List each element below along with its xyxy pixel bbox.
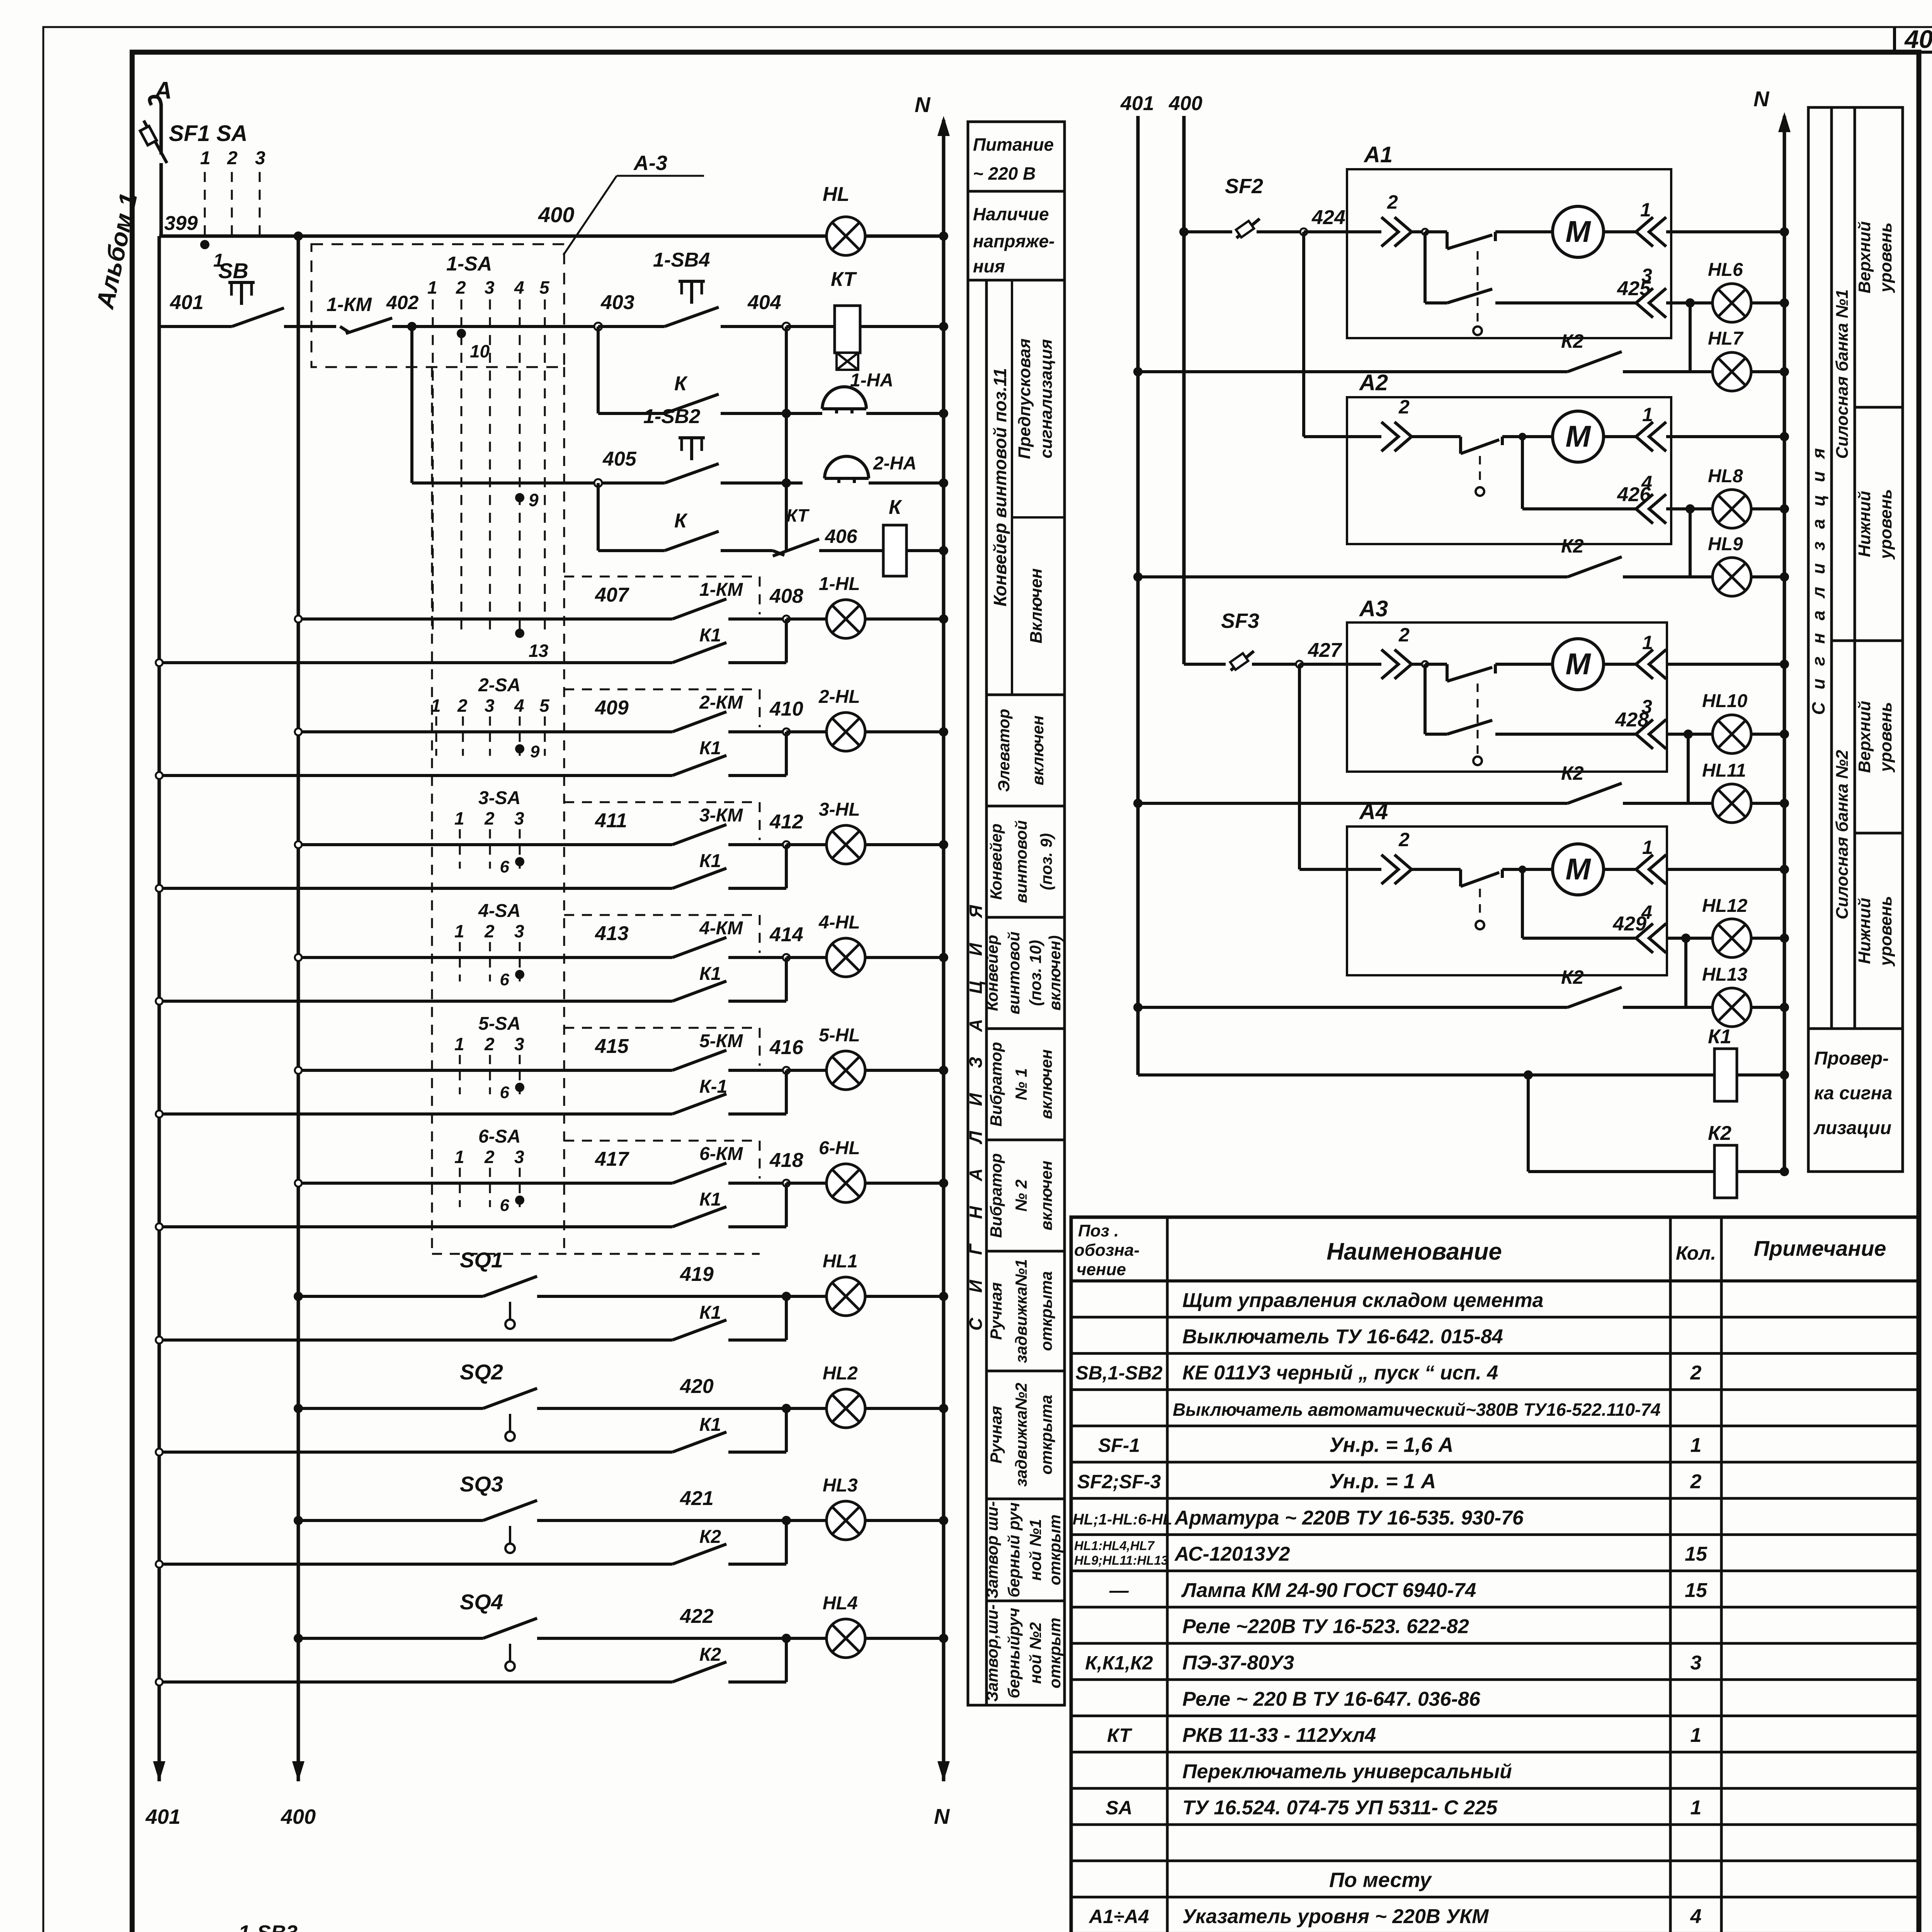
A3 contact internals (1422, 661, 1553, 681)
svg-text:416: 416 (769, 1036, 804, 1059)
svg-text:HL3: HL3 (823, 1475, 858, 1496)
branch down SQ2 (785, 1408, 788, 1452)
svg-text:винтовой: винтовой (1005, 932, 1023, 1014)
contact K row (598, 372, 800, 413)
svg-text:4-КМ: 4-КМ (699, 918, 743, 939)
dashed box 2-КМ (564, 689, 760, 727)
level indicator block А3 (1347, 596, 1667, 772)
junction K2 bus401 A4 (1133, 1003, 1143, 1012)
junction HL8/N (1780, 504, 1789, 514)
svg-text:1-HL: 1-HL (819, 574, 860, 594)
relay contact К1 row 2 (159, 738, 786, 776)
branch 414 down (785, 957, 788, 1001)
parts row 3: КЕ 011У3 черный „ пуск “ (1075, 1362, 1701, 1384)
svg-text:2: 2 (484, 1147, 495, 1167)
svg-text:КТ: КТ (1107, 1725, 1133, 1746)
svg-text:40: 40 (1904, 25, 1932, 53)
node 13 (515, 629, 524, 638)
svg-text:ПЭ-37-80У3: ПЭ-37-80У3 (1182, 1652, 1294, 1674)
selector 3-SА label and contacts (454, 788, 524, 869)
svg-text:407: 407 (595, 584, 629, 606)
wire to K2 coil (1528, 1170, 1714, 1173)
svg-text:SQ4: SQ4 (460, 1590, 503, 1614)
svg-text:1: 1 (454, 921, 464, 941)
bus 400 second vertical (297, 236, 300, 1781)
svg-text:SА: SА (1105, 1797, 1132, 1819)
svg-text:открыт: открыт (1046, 1514, 1064, 1585)
parts row 15: ТУ 16.524. 074-75 УП 5311 (1105, 1797, 1701, 1819)
motor M A4 (1553, 844, 1604, 895)
svg-text:SF-1: SF-1 (1098, 1435, 1140, 1456)
svg-text:HL10: HL10 (1702, 691, 1748, 711)
svg-text:Лампа КМ 24-90 ГОСТ 6940-7: Лампа КМ 24-90 ГОСТ 6940-74 (1181, 1579, 1476, 1602)
junction wire 407 bus 400 (295, 616, 302, 622)
pushbutton SB (218, 259, 336, 327)
svg-text:ния: ния (973, 256, 1005, 276)
junction К-1 bus 401 (156, 1111, 163, 1117)
svg-text:винтовой: винтовой (1012, 820, 1030, 903)
svg-text:включен: включен (1037, 1049, 1055, 1119)
svg-text:задвижка№2: задвижка№2 (1012, 1383, 1030, 1486)
svg-text:(поз. 10): (поз. 10) (1026, 940, 1044, 1006)
A4 contact internals (1437, 866, 1553, 886)
svg-text:2: 2 (1398, 829, 1410, 850)
branch 412 down (785, 845, 788, 888)
svg-text:Выключатель ТУ 16-642. 015-84: Выключатель ТУ 16-642. 015-84 (1182, 1325, 1503, 1348)
svg-text:Щит управления складом цемента: Щит управления складом цемента (1182, 1289, 1544, 1312)
svg-text:HL;1-HL:6-HL: HL;1-HL:6-HL (1073, 1511, 1172, 1528)
svg-text:401: 401 (170, 291, 204, 314)
junction A1/N (1780, 227, 1789, 236)
svg-text:1: 1 (200, 148, 211, 168)
contactor contact 4-КМ (672, 918, 786, 957)
parts row 17: По месту (1329, 1868, 1432, 1891)
svg-text:SВ: SВ (218, 259, 248, 283)
svg-text:419: 419 (680, 1263, 714, 1286)
lamp HL12 (1713, 919, 1751, 957)
svg-text:399: 399 (164, 212, 198, 235)
svg-text:4: 4 (1690, 1905, 1702, 1928)
svg-text:обозна-: обозна- (1074, 1241, 1139, 1260)
svg-text:Провер-: Провер- (1814, 1048, 1889, 1069)
svg-text:13: 13 (529, 641, 549, 661)
svg-text:КЕ 011У3 черный „ пуск “: КЕ 011У3 черный „ пуск “ исп. 4 (1182, 1362, 1498, 1384)
dashed selector chain right guide (563, 367, 565, 1252)
svg-text:2: 2 (484, 921, 495, 941)
svg-text:Указатель уровня ~ 220В УКМ: Указатель уровня ~ 220В УКМ (1182, 1905, 1489, 1928)
input terminal symbol (150, 97, 161, 139)
lamp HL7 (1713, 352, 1751, 391)
svg-text:HL6: HL6 (1708, 260, 1743, 280)
HL6 to N (1751, 301, 1784, 304)
lamp HL3 to N (865, 1519, 944, 1522)
svg-text:Питание: Питание (973, 134, 1054, 155)
branch down SQ3 (785, 1520, 788, 1564)
svg-text:6-SА: 6-SА (478, 1126, 520, 1147)
contactor contact 2-КМ (672, 692, 786, 732)
svg-text:М: М (1566, 647, 1592, 681)
signal cell Элеватор (986, 695, 1065, 792)
svg-text:Затвор,ши-: Затвор,ши- (983, 1604, 1001, 1702)
svg-text:2-НА: 2-НА (873, 453, 917, 474)
lamp 4-HL to N (865, 956, 944, 959)
lamp HL4 to N (865, 1637, 944, 1640)
connector pin 2 A1 (1381, 217, 1412, 247)
branch down SQ4 (785, 1638, 788, 1682)
svg-text:401: 401 (1120, 92, 1154, 115)
signal cell Затвор ши- (983, 1499, 1065, 1599)
relay contact K2 row A2 (1138, 535, 1690, 577)
1-SA contact lines (427, 277, 550, 634)
node 428 (1666, 733, 1688, 736)
A2 actuator dashed (1479, 456, 1481, 486)
lamp HL4 (827, 1619, 865, 1658)
relay contact К1 row 4 (159, 964, 786, 1001)
svg-text:Силосная банка №2: Силосная банка №2 (1833, 750, 1852, 919)
svg-text:2-КМ: 2-КМ (699, 692, 743, 713)
svg-text:409: 409 (595, 697, 629, 719)
junction 400/bus400 (294, 231, 303, 241)
svg-text:К2: К2 (699, 1527, 721, 1547)
svg-text:открыта: открыта (1037, 1395, 1055, 1475)
junction K2 bus401 A3 (1133, 799, 1143, 808)
svg-text:А: А (154, 77, 172, 104)
pushbutton 1-SB4 (653, 249, 786, 327)
svg-text:SА: SА (216, 121, 248, 146)
selector 2-SА label and contacts (431, 675, 550, 756)
contactor contact 5-КМ (672, 1031, 786, 1070)
svg-text:включен: включен (1029, 716, 1047, 786)
junction 400/N (939, 231, 948, 241)
svg-text:4-SА: 4-SА (478, 901, 520, 921)
svg-text:3: 3 (514, 808, 524, 828)
branch 425 down (1689, 303, 1692, 372)
svg-text:Нижний: Нижний (1855, 898, 1874, 964)
junction HL10/N (1780, 730, 1789, 739)
relay contact K2 row A1 (1138, 330, 1690, 372)
svg-text:3: 3 (485, 277, 495, 298)
node 9 group 2 (515, 744, 524, 753)
node wire 419 (782, 1292, 791, 1301)
A3 actuator dashed (1477, 684, 1479, 755)
svg-text:Поз .: Поз . (1078, 1221, 1119, 1240)
svg-text:HL7: HL7 (1708, 328, 1744, 349)
svg-text:Ручная: Ручная (987, 1282, 1005, 1340)
svg-text:А1÷А4: А1÷А4 (1088, 1906, 1149, 1927)
junction lamp 4-HL N (939, 953, 948, 962)
wire 420 to lamp (786, 1407, 827, 1410)
svg-text:К1: К1 (699, 1415, 721, 1435)
wire 418 to lamp (786, 1182, 827, 1185)
svg-text:N: N (934, 1804, 950, 1828)
junction wire 413 bus 400 (295, 954, 302, 961)
svg-text:открыта: открыта (1037, 1271, 1055, 1351)
relay contact К1 row 6 (159, 1189, 786, 1227)
bell 1-HA (800, 370, 944, 413)
svg-text:уровень: уровень (1876, 896, 1895, 967)
lamp 2-HL to N (865, 730, 944, 733)
svg-text:3: 3 (485, 696, 495, 716)
svg-text:Наименование: Наименование (1327, 1238, 1502, 1265)
svg-text:HL1: HL1 (823, 1251, 858, 1272)
wire 407 (298, 584, 672, 619)
bus N left vertical (942, 120, 946, 1781)
svg-text:1: 1 (431, 696, 441, 716)
svg-text:6: 6 (500, 1083, 510, 1102)
lamp 1-HL to N (865, 617, 944, 621)
svg-text:К: К (889, 496, 902, 519)
lamp HL8 (1713, 490, 1751, 528)
lamp 3-HL to N (865, 843, 944, 846)
svg-text:3: 3 (514, 1147, 524, 1167)
connector pin 2 A4 (1381, 855, 1412, 884)
node wire 420 (782, 1404, 791, 1413)
wire 409 (298, 697, 672, 732)
svg-text:SB,1-SB2: SB,1-SB2 (1075, 1362, 1162, 1384)
bell 2-HA (782, 453, 944, 488)
svg-text:5: 5 (539, 277, 550, 298)
selector 4-SА label and contacts (454, 901, 524, 981)
svg-text:К: К (674, 372, 688, 395)
wire bus400 to SQ2 (298, 1407, 483, 1410)
wire 408 to lamp (786, 617, 827, 621)
svg-text:ка сигна: ка сигна (1814, 1083, 1892, 1104)
svg-text:По месту: По месту (1329, 1868, 1432, 1891)
dashed selector chain left line (431, 367, 433, 1254)
svg-text:2: 2 (1398, 396, 1410, 418)
limit switch SQ1 (460, 1248, 786, 1329)
svg-text:N: N (915, 92, 931, 117)
wire 416 to lamp (786, 1069, 827, 1072)
junction lamp HL3 N (939, 1516, 948, 1525)
svg-text:1-SА: 1-SА (446, 253, 492, 275)
svg-text:Конвейер: Конвейер (987, 823, 1005, 900)
svg-text:400: 400 (281, 1805, 316, 1828)
junction lamp 5-HL N (939, 1066, 948, 1075)
svg-text:Арматура ~ 220В ТУ 16-535. 93: Арматура ~ 220В ТУ 16-535. 930-76 (1174, 1507, 1524, 1529)
node 412 (783, 841, 790, 848)
svg-text:2: 2 (1387, 191, 1398, 213)
svg-text:1: 1 (1640, 199, 1651, 221)
svg-text:SQ2: SQ2 (460, 1360, 503, 1384)
node 426 (1666, 507, 1690, 510)
svg-text:напряже-: напряже- (973, 231, 1054, 251)
svg-text:—: — (1109, 1580, 1129, 1601)
svg-text:2: 2 (457, 696, 468, 716)
wire M A1 to N (1604, 230, 1636, 233)
branch 408 down (785, 619, 788, 663)
svg-text:410: 410 (769, 698, 803, 720)
svg-text:428: 428 (1615, 709, 1649, 731)
svg-text:425: 425 (1617, 277, 1651, 300)
svg-text:К2: К2 (1561, 330, 1584, 352)
junction lamp 3-HL N (939, 840, 948, 849)
node 402 (407, 322, 417, 331)
node 404 (782, 323, 790, 330)
svg-text:Наличие: Наличие (973, 204, 1049, 224)
svg-text:Примечание: Примечание (1754, 1236, 1886, 1260)
svg-text:HL: HL (823, 183, 849, 206)
svg-text:Элеватор: Элеватор (995, 709, 1013, 792)
signal cell Вибратор (986, 1029, 1065, 1127)
junction SQ4 bus 400 (294, 1634, 303, 1643)
contactor contact 1-КМ (672, 580, 786, 619)
level indicator block А2 (1347, 370, 1671, 544)
bus 401 bottom arrow (153, 1761, 165, 1781)
dashed box 3-КМ (564, 802, 760, 840)
svg-text:уровень: уровень (1876, 489, 1895, 560)
svg-text:1: 1 (454, 808, 464, 828)
junction A3/N (1780, 660, 1789, 669)
svg-text:Кол.: Кол. (1676, 1242, 1716, 1264)
svg-text:5-SА: 5-SА (478, 1014, 520, 1034)
svg-text:6-КМ: 6-КМ (699, 1144, 743, 1164)
signal cell Конвейер (986, 806, 1065, 903)
relay contact K2 row A3 (1138, 762, 1688, 803)
parts row 11: ПЭ-37-80У3 (1085, 1652, 1701, 1674)
right signal table frame (1808, 107, 1903, 1172)
node 10 on wire 402 (457, 329, 466, 338)
svg-text:Переключатель универсальный: Переключатель универсальный (1182, 1760, 1512, 1783)
junction wire 409 bus 400 (295, 728, 302, 735)
svg-text:N: N (1753, 87, 1770, 111)
svg-text:SF2;SF-3: SF2;SF-3 (1077, 1471, 1161, 1493)
svg-text:SF3: SF3 (1221, 609, 1259, 633)
branch 427 down to A4 (1298, 664, 1301, 869)
svg-text:Ун.р. = 1,6 А: Ун.р. = 1,6 А (1329, 1434, 1453, 1457)
svg-text:1-SВ4: 1-SВ4 (653, 249, 710, 271)
svg-text:АС-12013У2: АС-12013У2 (1174, 1543, 1290, 1565)
callout A-3 (563, 151, 704, 255)
node 416 (783, 1067, 790, 1074)
svg-text:А1: А1 (1363, 142, 1393, 167)
junction К1 bus 401 SQ2 (156, 1449, 163, 1456)
svg-text:5-КМ: 5-КМ (699, 1031, 743, 1051)
parts row 18: Указатель уровня ~ 220В У (1088, 1905, 1701, 1928)
parts row 1: Щит управления складом цемен (1182, 1289, 1544, 1312)
motor M A2 (1553, 411, 1604, 462)
junction SQ3 bus 400 (294, 1516, 303, 1525)
wire 414 to lamp (786, 956, 827, 959)
svg-text:406: 406 (825, 526, 858, 547)
lamp HL9 (1713, 558, 1751, 596)
junction K1/N (1780, 1070, 1789, 1080)
lamp 5-HL (827, 1051, 865, 1090)
parts row 14: Переключатель универсальный (1182, 1760, 1512, 1783)
node 6 group 3 (515, 857, 524, 866)
svg-text:429: 429 (1612, 913, 1646, 935)
wire M A2 to N (1604, 435, 1636, 438)
parts row 6: Ун.р. = 1 А (1077, 1470, 1702, 1493)
bus 401 right vertical (1136, 116, 1140, 1075)
svg-text:405: 405 (602, 448, 637, 470)
A1 actuator dashed (1477, 251, 1479, 325)
svg-text:10: 10 (470, 341, 490, 361)
junction К1 bus 401 (156, 885, 163, 892)
junction К1 bus 401 (156, 659, 163, 666)
svg-text:К: К (674, 510, 688, 532)
svg-text:HL1:HL4,HL7: HL1:HL4,HL7 (1074, 1539, 1155, 1553)
lamp 4-HL (827, 938, 865, 977)
svg-text:А4: А4 (1359, 799, 1388, 824)
dashed box 4-КМ (564, 915, 760, 953)
svg-text:К1: К1 (699, 625, 721, 646)
node 414 (783, 954, 790, 961)
node 410 (783, 728, 790, 735)
junction SF2 bus400 (1179, 227, 1189, 236)
svg-text:ной №2: ной №2 (1026, 1622, 1044, 1684)
svg-text:4: 4 (514, 696, 524, 716)
svg-text:А-3: А-3 (633, 151, 667, 175)
svg-text:414: 414 (769, 923, 803, 946)
branch 405 down (597, 483, 600, 551)
wire into A4 (1299, 868, 1381, 871)
selector 5-SА label and contacts (454, 1014, 524, 1094)
bus N right vertical (1783, 116, 1786, 1172)
selector 1-SA dashed box (311, 244, 564, 367)
branch down to K2 coil (1527, 1075, 1530, 1172)
svg-text:1-SВ2: 1-SВ2 (643, 405, 700, 428)
svg-text:1: 1 (1690, 1797, 1702, 1819)
svg-text:HL9;HL11:HL13: HL9;HL11:HL13 (1074, 1553, 1168, 1568)
A2 lower branch (1522, 437, 1636, 509)
wire 405 (412, 448, 665, 483)
aux contact diagram 1-SВ3 (207, 1921, 350, 1932)
junction К2 bus 401 SQ3 (156, 1561, 163, 1568)
svg-text:3: 3 (255, 148, 265, 168)
svg-text:сигнализация: сигнализация (1037, 339, 1056, 459)
A2 contact internals (1437, 433, 1553, 454)
limit switch SQ3 (460, 1472, 786, 1553)
svg-text:2: 2 (484, 1034, 495, 1054)
junction К1 bus 401 (156, 998, 163, 1005)
svg-text:Нижний: Нижний (1855, 491, 1874, 557)
svg-text:SF1: SF1 (169, 121, 210, 146)
wire 410 to lamp (786, 730, 827, 733)
circuit breaker SF1 (140, 121, 167, 236)
parts table frame (1071, 1217, 1919, 1932)
parts row 9: Лампа КМ 24-90 ГОСТ 6940 (1109, 1579, 1708, 1602)
svg-text:Конвейер: Конвейер (983, 935, 1001, 1011)
svg-text:HL2: HL2 (823, 1363, 858, 1384)
relay coil K2 (1708, 1122, 1784, 1198)
svg-text:1: 1 (454, 1034, 464, 1054)
svg-text:(поз. 9): (поз. 9) (1037, 833, 1055, 890)
svg-text:415: 415 (595, 1035, 629, 1058)
limit switch SQ2 (460, 1360, 786, 1441)
branch 429 down (1684, 938, 1687, 1007)
junction lamp 2-HL N (939, 727, 948, 736)
dashed box 5-КМ (564, 1028, 760, 1066)
breaker SF3 (1184, 609, 1299, 670)
svg-text:2: 2 (456, 277, 466, 298)
svg-text:К1: К1 (699, 964, 721, 984)
junction К1 bus 401 (156, 1223, 163, 1230)
branch 410 down (785, 732, 788, 776)
parts row 2: Выключатель ТУ 16-642. 015- (1182, 1325, 1503, 1348)
wire 415 (298, 1035, 672, 1070)
svg-text:1-КМ: 1-КМ (327, 294, 372, 315)
svg-text:КТ: КТ (831, 268, 857, 291)
node 403 (594, 323, 602, 330)
svg-text:5-HL: 5-HL (819, 1025, 860, 1046)
svg-text:М: М (1566, 852, 1592, 886)
svg-text:уровень: уровень (1876, 702, 1895, 773)
junction SQ1 bus 400 (294, 1292, 303, 1301)
junction K2 bus401 A2 (1133, 572, 1143, 582)
connector pin 2 A2 (1381, 422, 1412, 451)
svg-text:4: 4 (514, 277, 524, 298)
